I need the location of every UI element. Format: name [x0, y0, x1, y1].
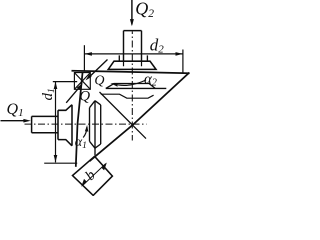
force Q2 line [130, 0, 134, 26]
dimension d2 line [85, 52, 183, 56]
horizontal centerline [25, 123, 147, 125]
hypotenuse of body [90, 73, 190, 162]
d1 extension line top [53, 81, 77, 83]
disc seat line (vertical assembly) [106, 87, 167, 89]
d1 extension line bottom [44, 162, 77, 164]
d2 extension line left [83, 45, 85, 71]
dimension b line [81, 162, 107, 187]
vertical plunger flange [108, 55, 156, 69]
vertical centerline [131, 32, 133, 141]
horizontal plunger flange [58, 105, 72, 146]
reaction arrow Q lower [66, 83, 82, 102]
angle alpha1 arc [83, 125, 88, 138]
vertical plunger rod [124, 31, 142, 62]
wedge bar (rotated square) [73, 156, 113, 195]
recess profile under vertical disc [101, 94, 154, 98]
angle alpha2 arc [110, 80, 146, 87]
d2 extension line right [182, 50, 184, 74]
svg-text:Q: Q [94, 73, 104, 88]
horizontal disc [90, 101, 101, 156]
horizontal plunger rod [32, 116, 58, 132]
vertical disc [106, 84, 155, 89]
body left edge [76, 72, 83, 167]
body top edge [72, 71, 190, 74]
force Q1 arrow [1, 119, 31, 123]
svg-text:Q: Q [79, 88, 90, 104]
reaction arrow Q upper [86, 60, 108, 81]
corner square with X [74, 73, 90, 90]
45 degree construction line [100, 92, 147, 139]
dimension d1 line [54, 82, 58, 163]
